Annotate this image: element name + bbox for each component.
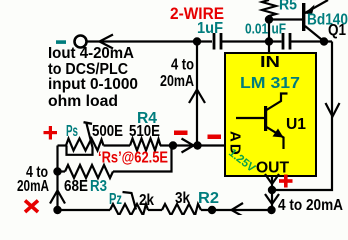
svg-text:4 to: 4 to — [171, 57, 194, 74]
wire bottom rail left — [58, 209, 111, 211]
arrow left on bottom rail — [232, 203, 244, 217]
wire IN pin — [268, 42, 270, 54]
label plus left rail — [44, 131, 58, 134]
node dot ADJ branch — [193, 141, 201, 149]
capacitor C-1uF plates — [213, 33, 216, 50]
label minus 1 on ADJ — [174, 131, 188, 136]
arrow down on right rail — [326, 103, 340, 117]
wire Pz to R2 — [148, 209, 162, 211]
node dot R3 left — [53, 167, 61, 175]
svg-text:500E: 500E — [92, 123, 123, 140]
potentiometer Pz wiper — [123, 192, 137, 210]
node dot at 1uF junction — [193, 37, 201, 45]
svg-text:input 0-1000: input 0-1000 — [48, 76, 138, 93]
wire OUT pin down — [271, 176, 273, 210]
node dot R5 base — [265, 15, 273, 23]
transistor U1 base wire — [236, 117, 264, 119]
resistor R3 (zigzag) — [65, 165, 113, 178]
node dot R5 top bus — [265, 37, 273, 45]
polarity dash (teal minus) — [56, 40, 66, 44]
arrow up on branch — [189, 90, 205, 104]
svg-text:‘Rs’@62.5E: ‘Rs’@62.5E — [98, 150, 168, 167]
svg-text:4 to 20mA: 4 to 20mA — [278, 197, 343, 214]
svg-text:U1: U1 — [286, 116, 306, 133]
svg-text:IN: IN — [260, 54, 280, 71]
node dot OUT to right rail — [268, 186, 276, 194]
wire right rail down — [272, 42, 332, 191]
terminal Iout (open circle) — [75, 36, 87, 48]
arrow left on top bus — [100, 35, 114, 49]
capacitor C-0.01uF plates — [282, 33, 285, 50]
wire Ps to R4 — [104, 144, 131, 146]
wire to Ps — [58, 144, 67, 146]
svg-text:R3: R3 — [90, 178, 107, 195]
arrow right on ADJ wire — [182, 139, 194, 153]
node dot R2 right — [208, 206, 216, 214]
transistor Q1 emitter — [305, 0, 328, 13]
svg-text:2k: 2k — [139, 192, 154, 209]
svg-text:R5: R5 — [279, 0, 297, 14]
resistor R4 (zigzag) — [130, 139, 161, 151]
wire bus right — [291, 40, 332, 42]
resistor R5 (vertical zigzag) — [262, 0, 276, 20]
svg-text:510E: 510E — [129, 123, 160, 140]
wire left rail — [56, 146, 58, 211]
arrow down on OUT wire (upper) — [265, 174, 279, 184]
svg-text:3k: 3k — [175, 190, 190, 207]
svg-text:1uF: 1uF — [197, 20, 223, 37]
label plus at OUT (red) — [279, 179, 293, 183]
svg-text:20mA: 20mA — [160, 73, 194, 90]
node dot bottom left corner — [53, 206, 61, 214]
svg-text:LM 317: LM 317 — [240, 75, 300, 92]
transistor U1 collector — [267, 94, 288, 111]
svg-text:Iout 4-20mA: Iout 4-20mA — [48, 45, 134, 62]
wire R5 to bus — [268, 20, 270, 42]
label X terminal (red) — [25, 201, 38, 213]
wire bus mid — [222, 40, 282, 42]
svg-text:Ps: Ps — [66, 123, 78, 140]
node dot Q1 collector — [320, 37, 328, 45]
svg-text:OUT: OUT — [256, 160, 290, 177]
potentiometer Ps wiper — [84, 122, 93, 124]
regulator box U-LM317 (body) — [225, 53, 316, 176]
svg-text:ohm load: ohm load — [48, 93, 118, 110]
svg-text:0.01 uF: 0.01 uF — [245, 21, 286, 38]
svg-text:Q1: Q1 — [328, 22, 346, 39]
arrow down on OUT wire (lower) — [265, 194, 279, 204]
transistor U1 emitter — [267, 127, 284, 149]
potentiometer Ps (zigzag) — [66, 139, 104, 151]
label minus 2 on ADJ — [208, 135, 222, 140]
transistor Q1 collector — [305, 26, 324, 42]
arrow up on left rail — [50, 191, 65, 204]
svg-text:R2: R2 — [198, 190, 219, 207]
node dot R4 right — [169, 141, 177, 149]
svg-text:68E: 68E — [64, 178, 88, 195]
wire bottom rail right — [201, 209, 271, 211]
transistor U1 base bar — [264, 106, 267, 131]
wire R3 branch (down and left) — [113, 146, 172, 172]
wire R4 to node — [160, 144, 173, 146]
transistor Q1 base bar — [302, 3, 305, 31]
wire Q1 base — [269, 18, 302, 20]
wire top bus — [87, 40, 212, 42]
node dot bottom OUT — [267, 206, 275, 214]
wire ADJ pin — [173, 144, 225, 146]
svg-text:Pz: Pz — [109, 191, 122, 208]
svg-text:20mA: 20mA — [17, 178, 49, 195]
potentiometer Pz (zigzag) — [110, 204, 148, 216]
wire left rail to R3 — [58, 170, 66, 172]
wire left vertical (4-20mA branch) — [196, 42, 198, 146]
resistor R2 (zigzag) — [162, 204, 201, 216]
